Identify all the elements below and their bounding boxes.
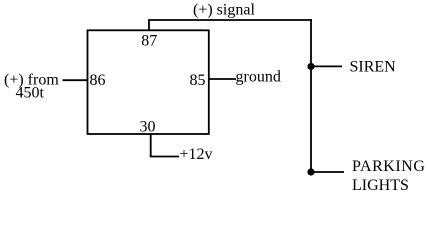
wire from pin 87 up [148, 20, 150, 30]
junction node SIREN [307, 63, 314, 70]
junction node PARKING LIGHTS [307, 168, 314, 175]
relay box K1 [88, 30, 209, 134]
svg-text:PARKING: PARKING [352, 158, 426, 175]
wire to pin 86 [63, 79, 88, 81]
svg-text:87: 87 [141, 33, 157, 50]
wire from pin 85 to ground [209, 78, 236, 80]
svg-text:(+) signal: (+) signal [193, 2, 255, 19]
wire to SIREN [313, 65, 342, 67]
svg-text:ground: ground [236, 68, 281, 85]
svg-text:SIREN: SIREN [350, 59, 397, 76]
wire to PARKING LIGHTS [313, 171, 344, 173]
svg-text:30: 30 [140, 119, 156, 136]
wire to +12v [150, 156, 179, 158]
svg-text:86: 86 [90, 72, 106, 89]
svg-text:+12v: +12v [180, 146, 213, 163]
wire right vertical bus [310, 19, 312, 172]
wire from pin 30 down [150, 134, 152, 157]
svg-text:450t: 450t [16, 85, 45, 102]
svg-text:85: 85 [190, 72, 206, 89]
wire signal top horizontal [148, 19, 312, 21]
svg-text:LIGHTS: LIGHTS [352, 177, 409, 194]
